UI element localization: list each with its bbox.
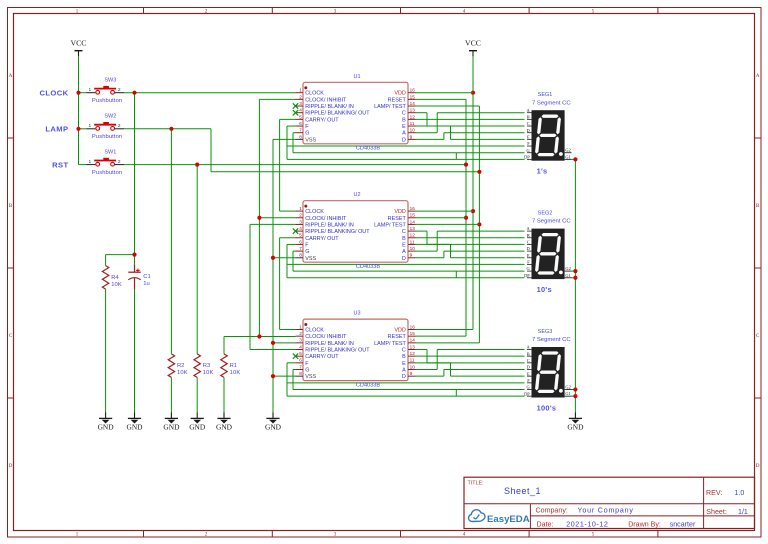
wire net F2 (from pin 6) (287, 244, 525, 277)
svg-text:VCC: VCC (70, 39, 86, 48)
switch SW2 (LAMP) (87, 114, 125, 141)
svg-text:LAMP/ TEST: LAMP/ TEST (374, 222, 406, 228)
svg-text:100's: 100's (537, 404, 557, 413)
svg-text:C: C (527, 121, 530, 126)
svg-text:E: E (402, 361, 406, 367)
wire net G1 (from pin 7) (293, 133, 525, 160)
wire net F1 (from pin 6) (287, 126, 525, 159)
svg-text:D: D (527, 128, 530, 133)
svg-text:sncarter: sncarter (670, 521, 696, 529)
svg-text:E: E (527, 371, 530, 376)
junction SEG2.G1 (573, 276, 577, 280)
svg-text:2: 2 (118, 123, 121, 129)
wire U2.LAMPTEST to LAMP bus (416, 223, 480, 225)
svg-text:SEG3: SEG3 (538, 329, 553, 335)
svg-text:3: 3 (299, 219, 302, 224)
svg-text:1u: 1u (143, 281, 149, 287)
svg-text:10: 10 (410, 128, 416, 133)
switch SW3 (CLOCK) (87, 77, 125, 104)
junction INHIBIT-R1 (257, 334, 261, 338)
svg-text:REV:: REV: (706, 489, 722, 497)
svg-text:B: B (402, 354, 406, 360)
ground at x=575.4 (567, 412, 584, 431)
junction VCC-LAMP (76, 127, 80, 131)
wire LAMP bus (right) (478, 106, 480, 343)
node CLOCK (40, 88, 69, 97)
wire U2.RESET to RST bus (416, 217, 467, 219)
wire U1.VDD to VCC bus (416, 92, 474, 94)
svg-text:G2: G2 (565, 385, 570, 390)
svg-text:11: 11 (410, 121, 415, 126)
svg-text:GND: GND (189, 422, 206, 431)
power VCC (left) (70, 39, 86, 57)
svg-text:2: 2 (299, 213, 302, 218)
svg-text:10K: 10K (203, 370, 214, 376)
svg-text:SEG2: SEG2 (538, 211, 553, 217)
svg-text:RIPPLE/ BLANKING/ OUT: RIPPLE/ BLANKING/ OUT (305, 348, 370, 354)
svg-text:GND: GND (567, 422, 584, 431)
svg-text:C1: C1 (143, 274, 150, 280)
svg-text:RESET: RESET (388, 97, 407, 103)
svg-text:RST: RST (52, 160, 68, 169)
svg-text:16: 16 (410, 88, 416, 93)
title block (464, 477, 755, 528)
svg-text:U3: U3 (353, 311, 360, 317)
svg-text:DP: DP (524, 154, 530, 159)
svg-text:VSS: VSS (305, 137, 316, 143)
svg-text:DP: DP (524, 391, 530, 396)
wire net E1 (416, 126, 525, 139)
svg-text:Drawn By:: Drawn By: (628, 521, 661, 529)
svg-text:RIPPLE/ BLANK/ IN: RIPPLE/ BLANK/ IN (305, 222, 354, 228)
svg-text:Company:: Company: (536, 507, 568, 515)
svg-text:1.0: 1.0 (735, 490, 745, 497)
svg-text:A: A (756, 74, 760, 79)
svg-text:CLOCK/ INHIBIT: CLOCK/ INHIBIT (305, 334, 347, 340)
svg-text:Pushbutton: Pushbutton (92, 134, 122, 140)
junction LAMP-U2.LT (477, 222, 481, 226)
wire CARRY U2 to U3 clock (280, 238, 296, 330)
wire U3.LAMPTEST to LAMP bus (416, 342, 480, 344)
svg-text:SW1: SW1 (104, 149, 116, 155)
svg-text:2: 2 (299, 331, 302, 336)
svg-text:DP: DP (524, 273, 530, 278)
svg-text:CLOCK: CLOCK (40, 88, 69, 97)
wire net C2 (416, 231, 525, 244)
junction RST-R3 branch (195, 163, 199, 167)
svg-text:U2: U2 (353, 192, 360, 198)
svg-text:9: 9 (410, 134, 413, 139)
wire net C3 (416, 350, 525, 363)
wire net B3 (416, 355, 525, 357)
svg-text:9: 9 (410, 253, 413, 258)
svg-text:15: 15 (410, 213, 416, 218)
svg-text:1: 1 (88, 159, 91, 165)
7-segment display SEG1 (524, 92, 571, 176)
svg-text:4: 4 (299, 226, 302, 231)
svg-text:12: 12 (410, 351, 416, 356)
wire SEG3 G2/G1 to cathode bus (572, 390, 576, 397)
svg-text:12: 12 (410, 114, 416, 119)
svg-text:6: 6 (299, 121, 302, 126)
svg-text:2: 2 (118, 87, 121, 93)
svg-text:3: 3 (299, 101, 302, 106)
svg-text:10K: 10K (230, 370, 241, 376)
svg-text:EasyEDA: EasyEDA (487, 514, 530, 525)
svg-text:4: 4 (299, 108, 302, 113)
svg-text:G2: G2 (565, 266, 570, 271)
svg-text:13: 13 (410, 108, 416, 113)
wire net DP3 (287, 395, 525, 397)
svg-text:C: C (402, 229, 406, 235)
junction GND-U2.VSS (271, 256, 275, 260)
svg-text:CLOCK: CLOCK (305, 328, 324, 334)
svg-text:1's: 1's (537, 167, 548, 176)
svg-text:RESET: RESET (388, 216, 407, 222)
svg-text:2: 2 (299, 94, 302, 99)
svg-text:CLOCK: CLOCK (305, 209, 324, 215)
wire U3.RESET to RST bus (416, 335, 467, 337)
svg-text:10's: 10's (537, 285, 552, 294)
ground at x=171.4 (163, 412, 180, 431)
svg-text:8: 8 (299, 371, 302, 376)
svg-text:RIPPLE/ BLANKING/ OUT: RIPPLE/ BLANKING/ OUT (305, 111, 370, 117)
junction SEG1.G1 (573, 157, 577, 161)
svg-text:R4: R4 (111, 275, 119, 281)
wire net B1 (416, 118, 525, 120)
wire net DP1 (287, 158, 525, 160)
svg-text:B: B (527, 114, 530, 119)
junction VCC-U2.VDD (471, 209, 475, 213)
svg-text:VCC: VCC (465, 39, 481, 48)
junction SEG3.G1 (573, 394, 577, 398)
svg-text:7: 7 (299, 128, 302, 133)
svg-text:C: C (402, 348, 406, 354)
svg-text:LAMP: LAMP (45, 125, 68, 134)
wire RST net: SW1 to rst rail (124, 165, 466, 354)
wire GND net: VSS bus down to ground (273, 139, 296, 412)
junction SEG3.G2 (573, 387, 577, 391)
svg-text:5: 5 (299, 233, 302, 238)
svg-text:Pushbutton: Pushbutton (92, 98, 122, 104)
svg-text:15: 15 (410, 94, 416, 99)
svg-text:R3: R3 (203, 363, 210, 369)
wire net G3 (from pin 7) (293, 370, 525, 397)
svg-text:11: 11 (410, 358, 415, 363)
junction RST rail tap (464, 163, 468, 167)
svg-text:G1: G1 (565, 154, 570, 159)
svg-text:Date:: Date: (537, 521, 554, 529)
svg-text:U1: U1 (353, 74, 360, 80)
svg-text:2: 2 (118, 159, 121, 165)
svg-text:14: 14 (410, 101, 416, 106)
wire net A2 (416, 231, 525, 251)
svg-text:8: 8 (299, 253, 302, 258)
svg-text:6: 6 (299, 358, 302, 363)
power VCC (right) (465, 39, 481, 57)
svg-text:LAMP/ TEST: LAMP/ TEST (374, 104, 406, 110)
svg-text:GND: GND (163, 422, 180, 431)
svg-text:GND: GND (98, 422, 115, 431)
svg-text:2021-10-12: 2021-10-12 (566, 521, 608, 529)
svg-text:A: A (402, 368, 406, 374)
svg-text:A: A (402, 249, 406, 255)
resistor R1 10K (221, 354, 241, 378)
svg-text:Sheet_1: Sheet_1 (504, 486, 541, 496)
svg-text:VDD: VDD (394, 209, 406, 215)
svg-text:15: 15 (410, 331, 416, 336)
resistor R3 10K (194, 354, 214, 378)
svg-text:D: D (9, 464, 13, 469)
wire SEG1 G1 to cathode bus (572, 158, 576, 160)
junction LAMP-R2 branch (169, 127, 173, 131)
svg-text:D: D (527, 365, 530, 370)
svg-text:10: 10 (410, 246, 416, 251)
svg-text:16: 16 (410, 324, 416, 329)
svg-text:D: D (756, 464, 760, 469)
resistor R2 10K (168, 354, 188, 378)
svg-text:Sheet:: Sheet: (706, 508, 727, 516)
svg-text:SEG1: SEG1 (538, 92, 553, 98)
svg-text:D: D (402, 374, 406, 380)
svg-text:10: 10 (410, 364, 416, 369)
ground at x=273 (265, 412, 282, 431)
svg-text:G: G (305, 368, 309, 374)
wire U3.VDD to VCC bus (416, 329, 474, 331)
7-segment display SEG2 (524, 211, 571, 295)
svg-text:1: 1 (88, 87, 91, 93)
EasyEDA logo (469, 510, 530, 525)
wire net A1 (416, 113, 525, 133)
op-amp-style IC U1 CD4033B (293, 74, 416, 152)
wire U2.VDD to VCC bus (416, 210, 474, 212)
svg-text:Your Company: Your Company (578, 507, 634, 515)
wire CARRY U1 to U2 clock (280, 119, 296, 211)
svg-text:D: D (402, 137, 406, 143)
junction LAMP rail tap (477, 170, 481, 174)
svg-text:1: 1 (299, 324, 302, 329)
wire resistor bottoms to ground (106, 289, 224, 412)
svg-text:RIPPLE/ BLANK/ IN: RIPPLE/ BLANK/ IN (305, 341, 354, 347)
svg-text:CARRY/ OUT: CARRY/ OUT (305, 236, 339, 242)
svg-text:G: G (305, 249, 309, 255)
svg-text:B: B (402, 236, 406, 242)
svg-text:1/1: 1/1 (738, 508, 748, 516)
wire net A3 (416, 350, 525, 370)
capacitor C1 1u (polarized) (128, 264, 150, 290)
svg-text:6: 6 (299, 239, 302, 244)
svg-text:8: 8 (299, 134, 302, 139)
svg-text:7 Segment CC: 7 Segment CC (532, 219, 571, 225)
svg-text:12: 12 (410, 233, 416, 238)
svg-text:4: 4 (299, 344, 302, 349)
ground at x=105.6 (98, 412, 115, 431)
svg-text:7: 7 (299, 246, 302, 251)
wire net DP2 (287, 277, 525, 279)
resistor R4 10K (102, 266, 122, 290)
wire INHIBIT net: U1.2/U2.2/U3.2 pulled by R1 (224, 99, 296, 354)
svg-text:D: D (402, 256, 406, 262)
svg-text:E: E (402, 242, 406, 248)
svg-text:CLOCK/ INHIBIT: CLOCK/ INHIBIT (305, 216, 347, 222)
svg-text:B: B (527, 233, 530, 238)
svg-text:5: 5 (299, 114, 302, 119)
svg-text:13: 13 (410, 226, 416, 231)
svg-text:C: C (527, 240, 530, 245)
node RST (52, 160, 68, 169)
svg-text:1: 1 (299, 206, 302, 211)
ground at x=197.2 (189, 412, 206, 431)
svg-text:CD4033B: CD4033B (356, 382, 381, 388)
wire RBO U3 to RBI U2 (250, 224, 296, 349)
wire RST bus (right) (465, 99, 467, 336)
junction VCC-U1.VDD (471, 91, 475, 95)
wire net G2 (from pin 7) (293, 251, 525, 278)
svg-text:RIPPLE/ BLANK/ IN: RIPPLE/ BLANK/ IN (305, 104, 354, 110)
svg-text:G1: G1 (565, 391, 570, 396)
wire cathode bus to ground (574, 159, 576, 412)
svg-text:VDD: VDD (394, 91, 406, 97)
wire SEG2 G2/G1 to cathode bus (572, 271, 576, 278)
svg-text:SW3: SW3 (104, 77, 116, 83)
svg-text:C: C (402, 111, 406, 117)
svg-text:E: E (527, 134, 530, 139)
svg-text:R2: R2 (177, 363, 184, 369)
svg-text:14: 14 (410, 219, 416, 224)
svg-text:7: 7 (299, 364, 302, 369)
svg-text:1: 1 (88, 123, 91, 129)
svg-text:3: 3 (299, 338, 302, 343)
svg-text:CLOCK: CLOCK (305, 91, 324, 97)
wire net D2 (416, 251, 525, 258)
svg-text:SW2: SW2 (104, 114, 116, 120)
wire U1.RESET to RST bus (416, 98, 467, 100)
node LAMP (45, 125, 68, 134)
junction CLOCK-RC branch (132, 91, 136, 95)
wire LAMP net: SW2 to lamp rail (124, 129, 479, 354)
svg-text:VDD: VDD (394, 328, 406, 334)
op-amp-style IC U2 CD4033B (293, 192, 416, 270)
svg-text:RESET: RESET (388, 334, 407, 340)
svg-text:E: E (402, 124, 406, 130)
svg-text:A: A (9, 74, 13, 79)
svg-text:D: D (527, 246, 530, 251)
op-amp-style IC U3 CD4033B (293, 311, 416, 389)
svg-text:CARRY/ OUT: CARRY/ OUT (305, 117, 339, 123)
7-segment display SEG3 (524, 329, 571, 413)
wire VCC bus (right) (472, 56, 474, 329)
wire U1.LAMPTEST to LAMP bus (416, 105, 480, 107)
svg-text:14: 14 (410, 338, 416, 343)
svg-text:Pushbutton: Pushbutton (92, 170, 122, 176)
svg-text:E: E (527, 253, 530, 258)
svg-text:7 Segment CC: 7 Segment CC (532, 100, 571, 106)
junction VCC-CLOCK (76, 91, 80, 95)
svg-text:CD4033B: CD4033B (356, 264, 381, 270)
svg-text:16: 16 (410, 206, 416, 211)
svg-text:B: B (527, 351, 530, 356)
svg-text:G2: G2 (565, 148, 570, 153)
wire net D1 (416, 133, 525, 140)
svg-text:CD4033B: CD4033B (356, 146, 381, 152)
ground at x=224 (216, 412, 233, 431)
wire net D3 (416, 370, 525, 377)
wire net C1 (416, 113, 525, 126)
wire net B2 (416, 237, 525, 239)
svg-text:5: 5 (299, 351, 302, 356)
svg-text:11: 11 (410, 239, 415, 244)
wire CLOCK net: SW3 to U1 pin1 and RC (106, 93, 296, 266)
svg-text:C: C (527, 358, 530, 363)
wire net F3 (from pin 6) (287, 363, 525, 396)
svg-text:R1: R1 (230, 363, 237, 369)
junction GND-U3.RBI (271, 341, 275, 345)
ground at x=134.5 (126, 412, 143, 431)
svg-text:13: 13 (410, 344, 416, 349)
junction GND-U3.VSS (271, 374, 275, 378)
junction R4/C1 top (132, 253, 136, 257)
switch SW1 (RST) (87, 149, 125, 176)
svg-text:GND: GND (216, 422, 233, 431)
svg-text:10K: 10K (177, 370, 188, 376)
svg-text:GND: GND (126, 422, 143, 431)
svg-text:G: G (305, 131, 309, 137)
svg-text:CLOCK/ INHIBIT: CLOCK/ INHIBIT (305, 97, 347, 103)
svg-text:7 Segment CC: 7 Segment CC (532, 337, 571, 343)
svg-text:RIPPLE/ BLANKING/ OUT: RIPPLE/ BLANKING/ OUT (305, 229, 370, 235)
wire net E2 (416, 244, 525, 257)
junction RST-U2.RESET (464, 216, 468, 220)
wire net E3 (416, 363, 525, 376)
svg-text:10K: 10K (111, 282, 122, 288)
svg-text:VSS: VSS (305, 374, 316, 380)
svg-text:CARRY/ OUT: CARRY/ OUT (305, 354, 339, 360)
svg-text:B: B (402, 117, 406, 123)
junction SEG2.G2 (573, 269, 577, 273)
svg-text:GND: GND (265, 422, 282, 431)
wire VCC left vertical with switch feeds (79, 56, 87, 164)
svg-text:VSS: VSS (305, 256, 316, 262)
svg-text:TITLE:: TITLE: (468, 481, 484, 487)
svg-text:1: 1 (299, 88, 302, 93)
svg-text:G1: G1 (565, 273, 570, 278)
svg-text:LAMP/ TEST: LAMP/ TEST (374, 341, 406, 347)
svg-text:A: A (402, 131, 406, 137)
svg-text:9: 9 (410, 371, 413, 376)
junction INHIBIT-U2.2 (257, 216, 261, 220)
